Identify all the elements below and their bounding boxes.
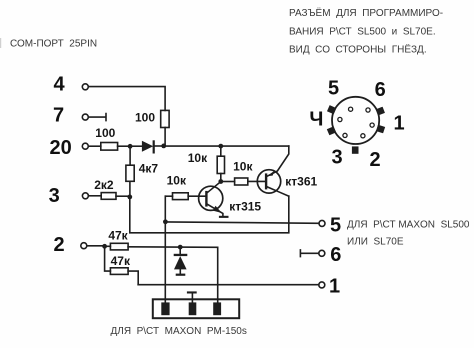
- resistor 100 vertical R1: [161, 110, 169, 127]
- svg-text:ДЛЯ Р\СТ MAXON SL500: ДЛЯ Р\СТ MAXON SL500: [347, 219, 470, 230]
- DIN key tab upper-right: [376, 107, 385, 116]
- node E junction (KT315 collector): [218, 179, 223, 184]
- DIN socket hole 4: [338, 117, 342, 121]
- DIN socket hole 3: [343, 133, 347, 137]
- svg-text:6: 6: [375, 79, 386, 101]
- resistor 10к R6 horizontal to KT361 base: [221, 178, 265, 185]
- DIN socket hole 6: [366, 108, 370, 112]
- resistor 100 horizontal R2: [101, 143, 118, 151]
- svg-text:Ч: Ч: [309, 109, 323, 131]
- svg-text:ВИД СО СТОРОНЫ ГНЁЗД.: ВИД СО СТОРОНЫ ГНЁЗД.: [289, 44, 427, 56]
- node C junction (top of R5): [218, 144, 223, 149]
- node F junction (base network): [163, 219, 168, 224]
- DIN key tab upper-left: [327, 105, 336, 114]
- svg-text:7: 7: [53, 105, 64, 127]
- svg-text:4: 4: [53, 74, 65, 96]
- transistor KT361 Q2: [257, 146, 289, 196]
- node H junction (zener tap): [178, 245, 183, 250]
- resistor 10к R7 horizontal to KT315 base: [165, 193, 205, 200]
- terminal pin 2: [81, 243, 87, 249]
- DIN connector body: [332, 97, 379, 144]
- DIN key tab lower-right: [376, 125, 385, 134]
- wire node F down to block pin: [164, 196, 166, 302]
- svg-text:3: 3: [332, 147, 343, 169]
- wire rail node F to pin 5: [165, 222, 319, 223]
- resistor 2к2 R4: [101, 193, 116, 200]
- block pin right: [213, 302, 221, 315]
- svg-text:100: 100: [95, 126, 115, 140]
- wire pin4 to node B: [88, 87, 165, 111]
- svg-text:ВАНИЯ Р\СТ SL500 и SL70E.: ВАНИЯ Р\СТ SL500 и SL70E.: [289, 26, 436, 37]
- svg-text:2: 2: [369, 149, 380, 171]
- svg-text:кт361: кт361: [285, 174, 317, 188]
- svg-text:20: 20: [49, 137, 71, 159]
- svg-text:1: 1: [394, 113, 405, 135]
- terminal pin 1: [319, 282, 325, 288]
- node D junction: [127, 195, 132, 200]
- terminal pin 6: [319, 250, 325, 256]
- DIN socket hole 2: [361, 134, 365, 138]
- wire pin2 to node G: [87, 245, 105, 247]
- svg-text:2к2: 2к2: [94, 178, 114, 192]
- antenna stub on middle pin: [187, 291, 197, 302]
- svg-text:100: 100: [135, 111, 155, 125]
- svg-text:СОМ-ПОРТ 25PIN: СОМ-ПОРТ 25PIN: [10, 39, 97, 50]
- svg-text:10к: 10к: [233, 160, 253, 174]
- wire pin6 stub: [300, 250, 318, 257]
- resistor 47к R9: [105, 246, 139, 284]
- svg-text:РАЗЪЁМ ДЛЯ ПРОГРАММИРО-: РАЗЪЁМ ДЛЯ ПРОГРАММИРО-: [289, 7, 443, 19]
- transistor KT315 Q1: [199, 182, 223, 216]
- DIN socket hole 1: [370, 123, 374, 127]
- wire R9 to pin 1: [138, 284, 319, 286]
- wire pin20 to R2: [88, 145, 100, 147]
- svg-text:1: 1: [329, 276, 340, 298]
- ground (KT315 emitter): [219, 216, 229, 218]
- node B junction: [161, 144, 166, 149]
- block pin left: [161, 302, 169, 315]
- svg-text:47к: 47к: [108, 228, 128, 242]
- resistor 4к7 R3 vertical: [126, 146, 134, 197]
- resistor 47к R8: [105, 243, 218, 250]
- svg-text:6: 6: [330, 244, 341, 266]
- wire R2 to node A: [118, 145, 131, 147]
- terminal pin 3: [82, 193, 88, 199]
- terminal pin 20: [82, 143, 88, 149]
- svg-text:ДЛЯ Р\СТ MAXON PM-150s: ДЛЯ Р\СТ MAXON PM-150s: [111, 326, 247, 337]
- zener diode VD2: [174, 247, 188, 276]
- DIN key tab bottom: [352, 146, 359, 153]
- wire VD1 to node B: [155, 145, 164, 147]
- terminal pin 7: [82, 114, 88, 120]
- svg-text:5: 5: [330, 214, 341, 236]
- svg-text:3: 3: [49, 185, 60, 207]
- wire node A to diode VD1: [130, 145, 142, 147]
- node A junction: [128, 144, 133, 149]
- svg-text:ИЛИ SL70E: ИЛИ SL70E: [347, 237, 404, 248]
- diode VD1: [142, 141, 154, 153]
- svg-text:кт315: кт315: [229, 199, 261, 213]
- wire pin7 stub: [88, 114, 106, 121]
- svg-text:10к: 10к: [167, 173, 187, 187]
- wire node B to top rail: [164, 145, 289, 147]
- svg-text:5: 5: [328, 77, 339, 99]
- wire R4 to node D: [116, 195, 130, 197]
- block pin middle: [189, 302, 197, 315]
- svg-text:10к: 10к: [188, 151, 208, 165]
- DIN key tab lower-left: [327, 126, 336, 135]
- svg-text:47к: 47к: [111, 254, 131, 268]
- wire R1 to node B: [164, 128, 166, 146]
- wire node D down and right to KT361 collector: [130, 196, 289, 233]
- block PM-150s connector: [153, 299, 239, 318]
- terminal pin 4: [82, 84, 88, 90]
- wire pin3 to R4: [88, 195, 101, 197]
- resistor 10к R5 vertical: [217, 146, 224, 181]
- scan smudge left edge: [0, 38, 1, 48]
- DIN socket hole 5: [349, 107, 353, 111]
- svg-text:4к7: 4к7: [139, 162, 159, 176]
- wire R8 line down to block pin: [217, 247, 219, 302]
- terminal pin 5: [319, 220, 325, 226]
- node G junction: [102, 244, 107, 249]
- svg-text:2: 2: [53, 234, 64, 256]
